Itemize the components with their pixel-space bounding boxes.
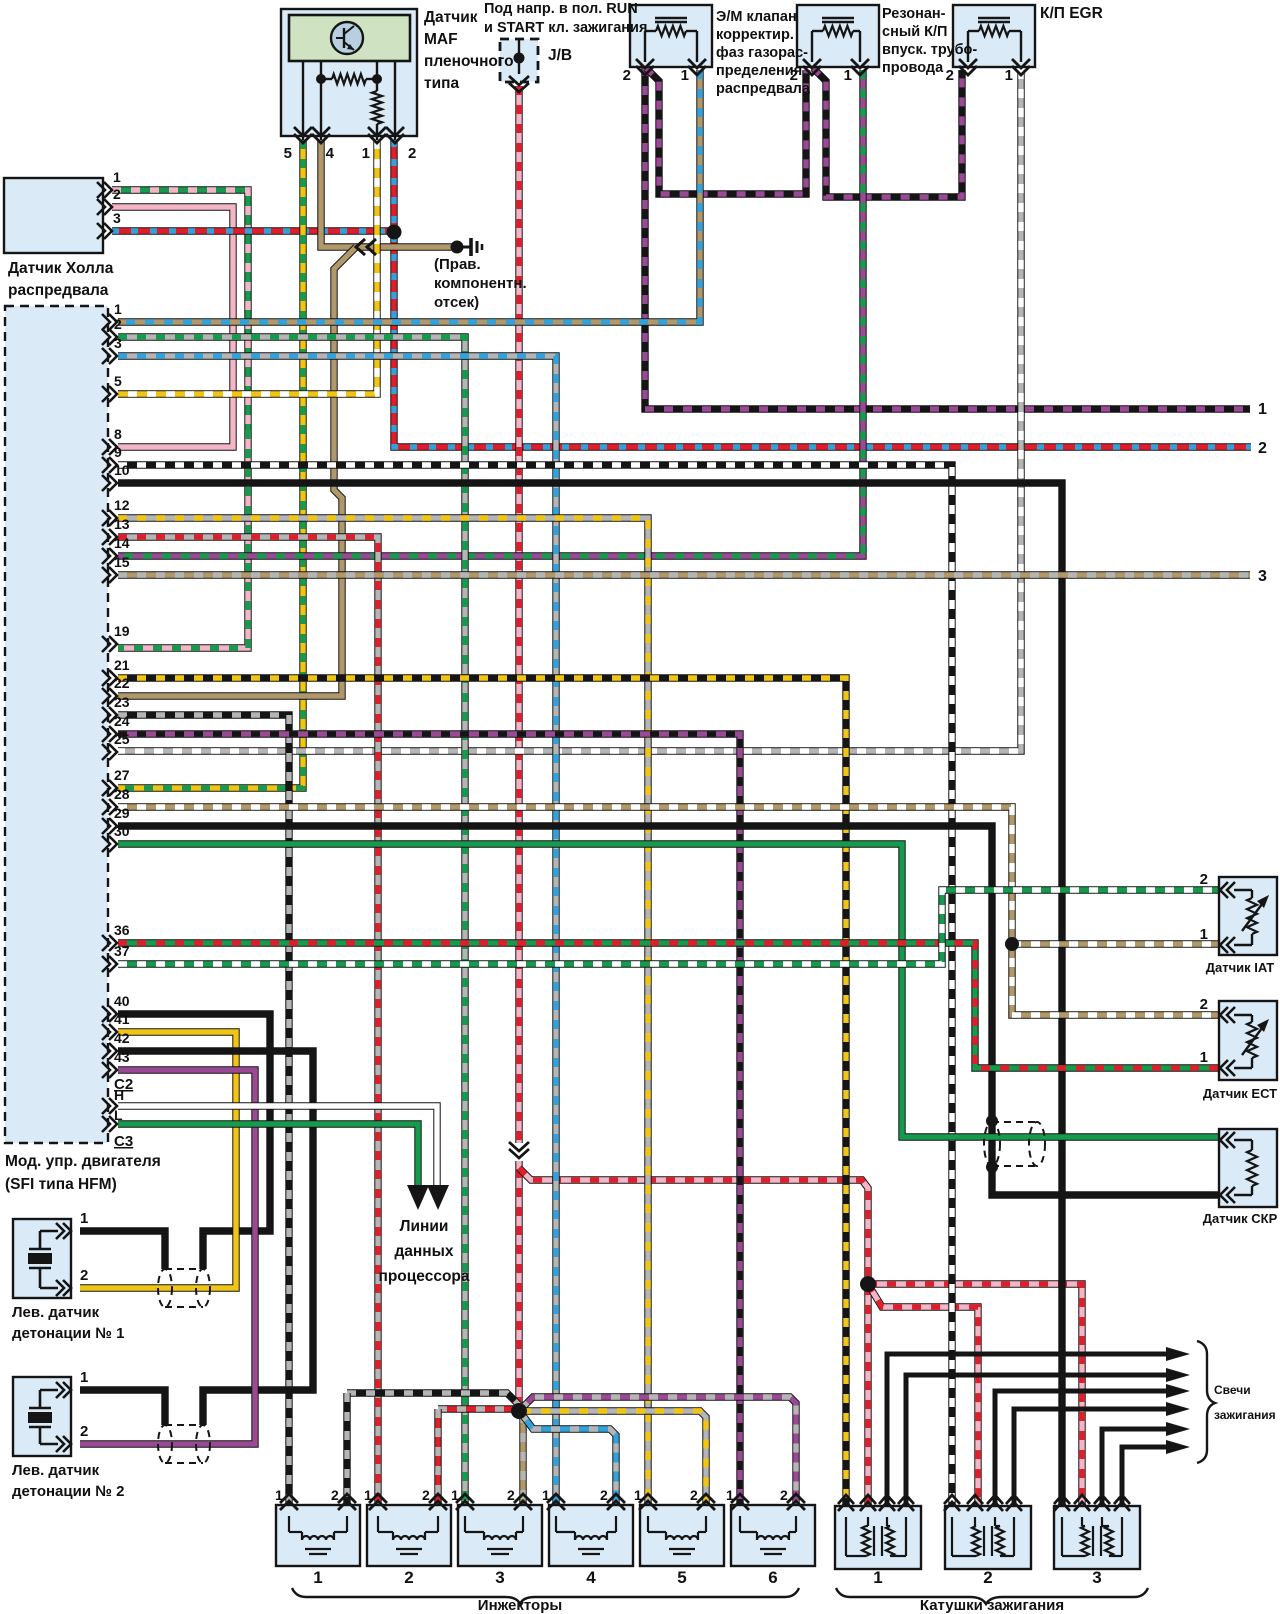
svg-text:1: 1 xyxy=(313,1568,322,1587)
svg-text:1: 1 xyxy=(80,1210,88,1227)
svg-text:25: 25 xyxy=(114,731,130,747)
svg-text:2: 2 xyxy=(331,1487,339,1503)
svg-text:2: 2 xyxy=(80,1267,88,1284)
svg-text:23: 23 xyxy=(114,694,130,710)
svg-text:пределения: пределения xyxy=(716,63,802,79)
svg-text:Датчик: Датчик xyxy=(424,9,478,26)
svg-text:3: 3 xyxy=(114,335,122,351)
svg-text:1: 1 xyxy=(1200,926,1208,943)
svg-text:1: 1 xyxy=(114,301,122,317)
svg-text:Датчик Холла: Датчик Холла xyxy=(8,260,114,277)
svg-text:40: 40 xyxy=(114,993,130,1009)
svg-text:2: 2 xyxy=(1200,996,1208,1013)
svg-text:типа: типа xyxy=(424,75,459,92)
svg-text:фаз газорас-: фаз газорас- xyxy=(716,45,808,61)
svg-text:отсек): отсек) xyxy=(434,294,479,311)
svg-text:1: 1 xyxy=(364,1487,372,1503)
svg-text:провода: провода xyxy=(882,60,944,76)
svg-text:Лев. датчик: Лев. датчик xyxy=(12,1462,100,1479)
svg-text:5: 5 xyxy=(114,373,122,389)
svg-text:1: 1 xyxy=(1005,67,1013,84)
svg-text:30: 30 xyxy=(114,823,130,839)
svg-text:Катушки зажигания: Катушки зажигания xyxy=(920,1597,1064,1614)
svg-text:2: 2 xyxy=(600,1487,608,1503)
svg-text:2: 2 xyxy=(690,1487,698,1503)
svg-text:2: 2 xyxy=(114,316,122,332)
svg-text:распредвала: распредвала xyxy=(8,282,109,299)
svg-text:3: 3 xyxy=(113,210,121,226)
svg-text:Мод. упр. двигателя: Мод. упр. двигателя xyxy=(5,1153,161,1170)
svg-text:5: 5 xyxy=(284,145,292,162)
svg-text:43: 43 xyxy=(114,1049,130,1065)
svg-text:42: 42 xyxy=(114,1030,130,1046)
svg-text:1: 1 xyxy=(80,1369,88,1386)
svg-text:4: 4 xyxy=(586,1568,596,1587)
svg-text:2: 2 xyxy=(408,145,416,162)
svg-text:Датчик СКР: Датчик СКР xyxy=(1203,1211,1278,1226)
svg-text:2: 2 xyxy=(946,67,954,84)
svg-text:сный К/П: сный К/П xyxy=(882,24,947,40)
svg-text:Э/М клапан: Э/М клапан xyxy=(716,9,797,25)
svg-text:2: 2 xyxy=(80,1423,88,1440)
svg-text:компонентн.: компонентн. xyxy=(434,275,527,292)
svg-text:данных: данных xyxy=(394,1243,453,1260)
svg-text:14: 14 xyxy=(114,535,130,551)
svg-text:1: 1 xyxy=(844,67,852,84)
svg-text:1: 1 xyxy=(1258,401,1267,418)
svg-text:и START кл. зажигания: и START кл. зажигания xyxy=(484,20,647,36)
svg-text:37: 37 xyxy=(114,943,130,959)
svg-text:5: 5 xyxy=(677,1568,686,1587)
svg-text:впуск. трубо-: впуск. трубо- xyxy=(882,42,977,58)
svg-text:6: 6 xyxy=(768,1568,777,1587)
svg-text:1: 1 xyxy=(451,1487,459,1503)
svg-text:2: 2 xyxy=(1258,440,1267,457)
svg-text:детонации № 1: детонации № 1 xyxy=(12,1325,124,1342)
svg-text:2: 2 xyxy=(623,67,631,84)
svg-text:28: 28 xyxy=(114,786,130,802)
svg-text:Датчик IAT: Датчик IAT xyxy=(1206,960,1275,975)
svg-text:22: 22 xyxy=(114,675,130,691)
svg-text:Инжекторы: Инжекторы xyxy=(478,1597,562,1614)
svg-text:1: 1 xyxy=(275,1487,283,1503)
svg-text:процессора: процессора xyxy=(378,1268,469,1285)
svg-text:36: 36 xyxy=(114,922,130,938)
svg-text:2: 2 xyxy=(422,1487,430,1503)
svg-text:Под напр. в пол. RUN: Под напр. в пол. RUN xyxy=(484,1,638,17)
svg-text:10: 10 xyxy=(114,462,130,478)
svg-text:2: 2 xyxy=(113,186,121,202)
svg-text:2: 2 xyxy=(1200,871,1208,888)
svg-text:13: 13 xyxy=(114,516,130,532)
svg-text:Датчик ЕСТ: Датчик ЕСТ xyxy=(1203,1086,1277,1101)
svg-text:(Прав.: (Прав. xyxy=(434,256,481,273)
svg-text:детонации № 2: детонации № 2 xyxy=(12,1483,124,1500)
svg-text:(SFI типа HFM): (SFI типа HFM) xyxy=(5,1176,117,1193)
svg-text:15: 15 xyxy=(114,554,130,570)
svg-text:3: 3 xyxy=(1258,568,1267,585)
svg-text:3: 3 xyxy=(1092,1568,1101,1587)
svg-text:C3: C3 xyxy=(114,1133,133,1150)
svg-text:1: 1 xyxy=(113,169,121,185)
svg-text:27: 27 xyxy=(114,767,130,783)
svg-text:распредвала: распредвала xyxy=(716,81,811,97)
svg-text:29: 29 xyxy=(114,805,130,821)
svg-text:J/B: J/B xyxy=(548,47,572,64)
svg-text:корректир.: корректир. xyxy=(716,27,794,43)
svg-text:1: 1 xyxy=(634,1487,642,1503)
svg-text:41: 41 xyxy=(114,1011,130,1027)
svg-text:8: 8 xyxy=(114,426,122,442)
svg-text:Резонан-: Резонан- xyxy=(882,6,946,22)
svg-text:H: H xyxy=(114,1087,124,1103)
svg-text:Линии: Линии xyxy=(400,1218,449,1235)
svg-text:12: 12 xyxy=(114,497,130,513)
svg-text:пленочного: пленочного xyxy=(424,53,514,70)
svg-text:зажигания: зажигания xyxy=(1214,1408,1276,1422)
svg-text:Лев. датчик: Лев. датчик xyxy=(12,1304,100,1321)
svg-text:К/П EGR: К/П EGR xyxy=(1040,5,1103,22)
svg-text:2: 2 xyxy=(404,1568,413,1587)
svg-text:2: 2 xyxy=(507,1487,515,1503)
svg-text:3: 3 xyxy=(495,1568,504,1587)
svg-text:1: 1 xyxy=(681,67,689,84)
svg-text:1: 1 xyxy=(542,1487,550,1503)
svg-text:2: 2 xyxy=(983,1568,992,1587)
svg-text:19: 19 xyxy=(114,623,130,639)
svg-text:2: 2 xyxy=(780,1487,788,1503)
svg-text:Свечи: Свечи xyxy=(1214,1383,1251,1397)
svg-text:L: L xyxy=(114,1107,123,1123)
svg-text:1: 1 xyxy=(726,1487,734,1503)
svg-text:1: 1 xyxy=(873,1568,882,1587)
svg-text:9: 9 xyxy=(114,444,122,460)
svg-text:21: 21 xyxy=(114,657,130,673)
svg-text:MAF: MAF xyxy=(424,31,458,48)
svg-text:24: 24 xyxy=(114,713,130,729)
svg-text:1: 1 xyxy=(1200,1049,1208,1066)
svg-text:1: 1 xyxy=(362,145,370,162)
svg-text:4: 4 xyxy=(326,145,335,162)
